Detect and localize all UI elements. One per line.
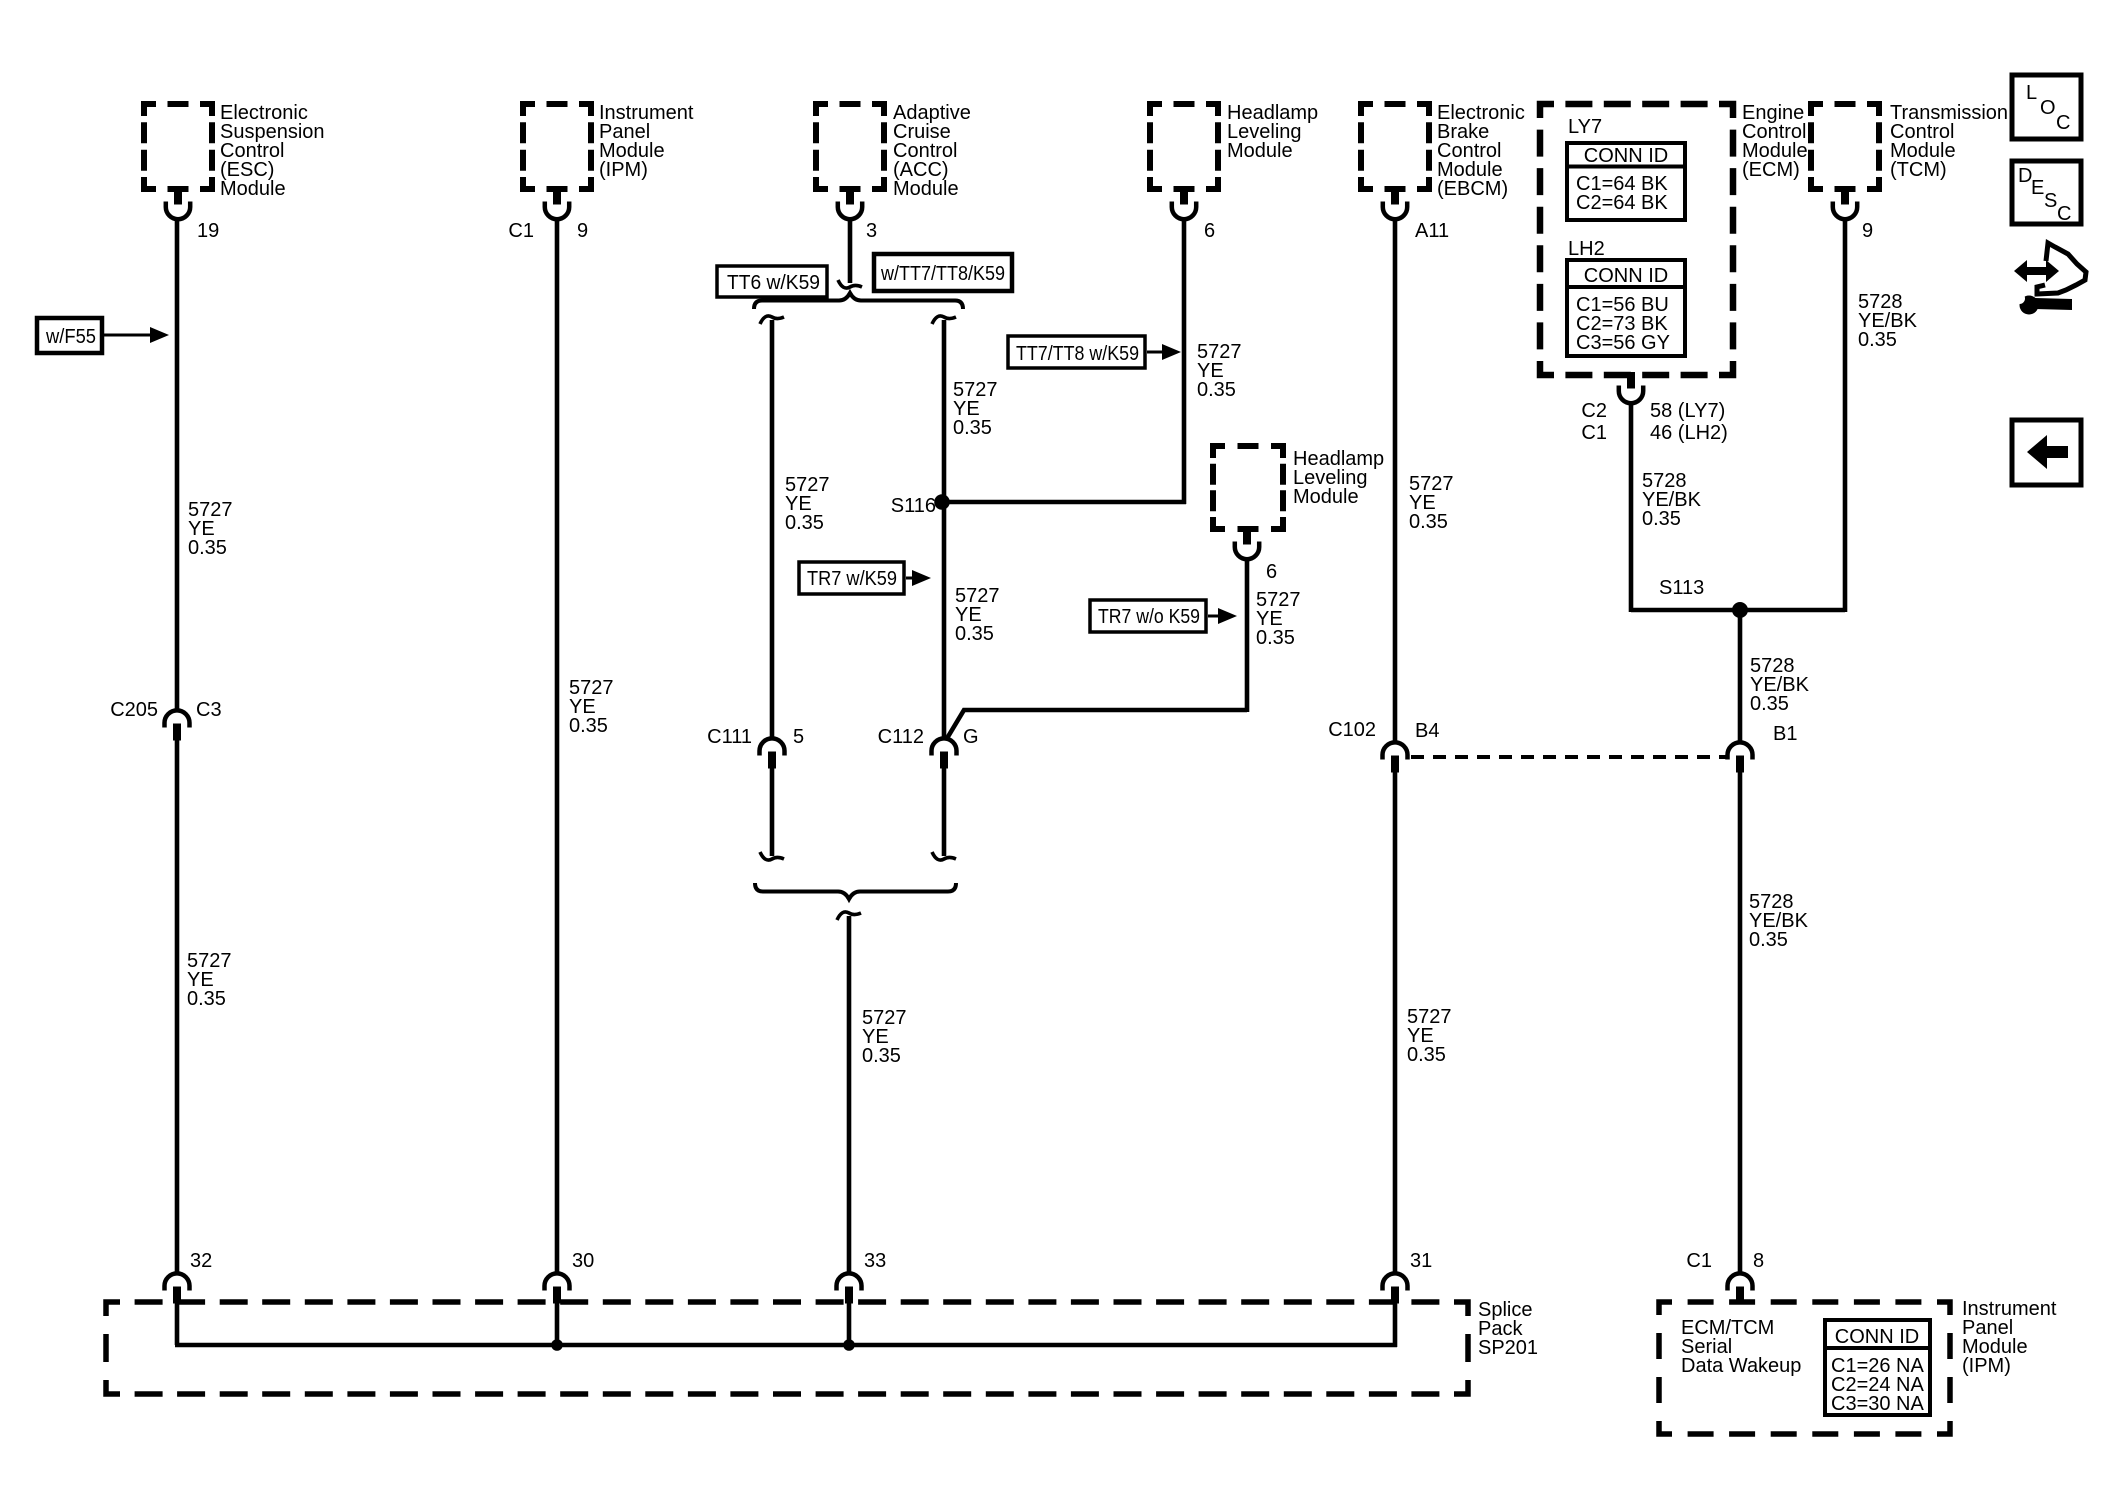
svg-text:0.35: 0.35 — [955, 623, 994, 645]
connector C1 (ECM) — [1581, 422, 1607, 444]
pin label 33 — [864, 1250, 886, 1272]
svg-text:6: 6 — [1266, 561, 1277, 583]
module ACC (Adaptive Cruise Control) box — [816, 104, 884, 189]
CONN ID table (IPM bottom) — [1825, 1320, 1930, 1415]
svg-text:0.35: 0.35 — [569, 715, 608, 737]
module IPM (Instrument Panel Module) label — [599, 102, 694, 181]
svg-text:Data Wakeup: Data Wakeup — [1681, 1355, 1801, 1377]
wire ECM 5728 YE/BK — [1629, 403, 1634, 612]
wire-end hook merged wire top — [837, 912, 861, 920]
svg-text:0.35: 0.35 — [1197, 379, 1236, 401]
option box w/TT7/TT8/K59 — [874, 254, 1012, 291]
wire EBCM into splice pack — [1393, 1303, 1398, 1347]
svg-text:0.35: 0.35 — [1642, 508, 1681, 530]
svg-text:(EBCM): (EBCM) — [1437, 178, 1508, 200]
svg-text:C2=64 BK: C2=64 BK — [1576, 192, 1668, 214]
svg-text:w/TT7/TT8/K59: w/TT7/TT8/K59 — [880, 263, 1005, 285]
module EBCM (Electronic Brake Control) box — [1361, 104, 1429, 189]
module EBCM (Electronic Brake Control) connector symbol — [1383, 188, 1407, 219]
pin 58 (LY7) (ECM) — [1650, 400, 1725, 422]
svg-text:LH2: LH2 — [1568, 238, 1605, 260]
svg-text:3: 3 — [866, 220, 877, 242]
module ACC (Adaptive Cruise Control) connector symbol — [838, 188, 862, 219]
svg-text:B4: B4 — [1415, 720, 1439, 742]
module ESC (Electronic Suspension Control) box — [144, 104, 212, 189]
svg-text:0.35: 0.35 — [1750, 693, 1789, 715]
module Headlamp Leveling (second) label — [1293, 448, 1384, 508]
svg-text:C1: C1 — [1581, 422, 1607, 444]
inline connector pin B1 — [1728, 742, 1753, 772]
connector C1 (IPM) — [508, 220, 534, 242]
wire-end hook right branch bottom — [932, 852, 956, 860]
wire Headlamp Leveling 2 vertical — [1245, 560, 1250, 712]
wire ACC right branch (lower) — [942, 768, 947, 856]
wire Headlamp Leveling 2 horizontal — [946, 710, 1247, 740]
svg-text:0.35: 0.35 — [1749, 929, 1788, 951]
svg-text:TR7 w/K59: TR7 w/K59 — [807, 568, 897, 590]
arrow TR7 w/K59 to right branch — [906, 570, 931, 586]
connector label C102 — [1328, 719, 1376, 741]
wire ACC merged to splice — [847, 916, 852, 1274]
svg-text:(IPM): (IPM) — [599, 159, 648, 181]
svg-text:A11: A11 — [1415, 220, 1449, 242]
splice pack pin 33 connector — [837, 1273, 862, 1303]
Headlamp Leveling (second) connector symbol — [1235, 528, 1259, 559]
module ECM label — [1742, 102, 1808, 181]
harness brace (bottom, above merge) — [755, 883, 956, 899]
svg-text:S113: S113 — [1659, 577, 1704, 599]
pin 9 (IPM) — [577, 220, 588, 242]
module TCM (Transmission Control) label — [1890, 102, 2008, 181]
svg-text:Module: Module — [220, 178, 286, 200]
module IPM (bottom) label — [1962, 1298, 2057, 1377]
svg-text:SP201: SP201 — [1478, 1337, 1538, 1359]
svg-text:(ECM): (ECM) — [1742, 159, 1800, 181]
wire ACC left branch (upper) — [770, 320, 775, 739]
wire TCM 5728 YE/BK — [1843, 218, 1848, 612]
arrow TT7/TT8 w/K59 to headlamp wire — [1147, 344, 1181, 360]
svg-text:S: S — [2044, 190, 2057, 212]
wire EBCM 5727 YE (upper) — [1393, 218, 1398, 743]
wire label 5727 YE 0.35 (Headlamp Leveling 2) — [1256, 589, 1301, 649]
svg-text:0.35: 0.35 — [1256, 627, 1295, 649]
svg-text:9: 9 — [577, 220, 588, 242]
wire label 5727 YE 0.35 (ACC left branch) — [785, 474, 830, 534]
svg-text:33: 33 — [864, 1250, 886, 1272]
svg-text:C205: C205 — [110, 699, 158, 721]
svg-text:C111: C111 — [707, 726, 752, 748]
pin 3 (ACC) — [866, 220, 877, 242]
wire label 5727 YE 0.35 (ACC right branch below S116) — [955, 585, 1000, 645]
module EBCM (Electronic Brake Control) label — [1437, 102, 1525, 200]
arrow w/F55 to ESC wire — [104, 327, 169, 343]
svg-text:TR7 w/o K59: TR7 w/o K59 — [1098, 606, 1200, 628]
svg-text:6: 6 — [1204, 220, 1215, 242]
module IPM (Instrument Panel Module) connector symbol — [545, 188, 569, 219]
svg-text:8: 8 — [1753, 1250, 1764, 1272]
svg-text:C3: C3 — [196, 699, 222, 721]
module Headlamp Leveling (top) box — [1150, 104, 1218, 189]
icon diagnostic (car, double arrow, wrench) — [2014, 243, 2086, 315]
wire-end hook ACC pigtail — [838, 280, 862, 288]
pin A11 (EBCM) — [1415, 220, 1449, 242]
option box TT7/TT8 w/K59 — [1008, 336, 1145, 368]
svg-text:0.35: 0.35 — [187, 988, 226, 1010]
splice pack pin 30 connector — [545, 1273, 570, 1303]
splice pack pin 31 connector — [1383, 1273, 1408, 1303]
inline connector C205/C3 (ESC) — [165, 710, 190, 740]
arrow TR7 w/o K59 to HL2 wire — [1208, 608, 1237, 624]
pin 19 (ESC) — [197, 220, 219, 242]
svg-text:C: C — [2056, 112, 2070, 134]
svg-text:C1: C1 — [508, 220, 534, 242]
svg-text:C112: C112 — [878, 726, 924, 748]
module IPM (bottom, ECM/TCM Serial Data Wakeup) dashed box — [1659, 1302, 1950, 1434]
module TCM (Transmission Control) connector symbol — [1833, 188, 1857, 219]
pin label 8 (IPM bottom) — [1753, 1250, 1764, 1272]
splice S116 junction dot — [934, 494, 950, 510]
wire label 5728 YE/BK 0.35 (ECM) — [1642, 470, 1702, 530]
svg-text:19: 19 — [197, 220, 219, 242]
module ESC (Electronic Suspension Control) label — [220, 102, 325, 200]
svg-text:E: E — [2031, 177, 2044, 199]
pin 6 (Headlamp Leveling) — [1204, 220, 1215, 242]
wire-end hook left branch top — [760, 316, 784, 324]
svg-text:30: 30 — [572, 1250, 594, 1272]
wire B1 to IPM pin 8 — [1738, 772, 1743, 1274]
wire label 5727 YE 0.35 (EBCM upper) — [1409, 473, 1454, 533]
wire label 5728 YE/BK 0.35 (B1 to C1/8) — [1749, 891, 1809, 951]
junction dot IPM wire on bus — [551, 1339, 563, 1351]
ECM connector symbol — [1619, 372, 1643, 403]
wire ESC into splice pack — [175, 1303, 180, 1345]
option box TR7 w/K59 — [799, 562, 904, 594]
module Headlamp Leveling (second, inline) box — [1213, 446, 1283, 529]
svg-text:C102: C102 — [1328, 719, 1376, 741]
wire ACC left branch (lower) — [770, 768, 775, 856]
connector label C112 — [878, 726, 924, 748]
pin 9 (TCM) — [1862, 220, 1873, 242]
pin label 31 — [1410, 1250, 1432, 1272]
wire EBCM 5727 YE (lower) — [1393, 772, 1398, 1274]
module ECM (Engine Control Module) dashed box — [1540, 104, 1733, 375]
node S113 label — [1659, 577, 1704, 599]
svg-text:0.35: 0.35 — [953, 417, 992, 439]
svg-text:LY7: LY7 — [1568, 116, 1602, 138]
wire label 5728 YE/BK 0.35 (TCM) — [1858, 291, 1918, 351]
option box TT6 w/K59 — [717, 266, 827, 297]
connector label C205 — [110, 699, 158, 721]
svg-text:CONN ID: CONN ID — [1584, 265, 1668, 287]
CONN ID table LY7 — [1567, 143, 1685, 220]
wire splice pack bus SP201 — [175, 1343, 1397, 1348]
connector C2 (ECM) — [1581, 400, 1607, 422]
pin 6 (Headlamp Leveling second) — [1266, 561, 1277, 583]
module TCM (Transmission Control) box — [1811, 104, 1879, 189]
svg-text:0.35: 0.35 — [1407, 1044, 1446, 1066]
svg-text:S116: S116 — [891, 495, 936, 517]
connector label C1 (IPM bottom) — [1686, 1250, 1712, 1272]
wire S116 horizontal — [940, 500, 1186, 505]
svg-text:46 (LH2): 46 (LH2) — [1650, 422, 1728, 444]
dashed connector link B4 to B1 — [1411, 755, 1728, 759]
svg-text:0.35: 0.35 — [862, 1045, 901, 1067]
wire IPM 5727 YE — [555, 218, 560, 1274]
splice pack SP201 label — [1478, 1299, 1538, 1359]
node S116 label — [891, 495, 936, 517]
wire ACC merged into splice pack — [847, 1303, 852, 1345]
svg-text:w/F55: w/F55 — [45, 326, 96, 348]
option box TR7 w/o K59 — [1090, 600, 1206, 632]
label LY7 — [1568, 116, 1602, 138]
option box w/F55 — [37, 318, 102, 353]
wire IPM into splice pack — [555, 1303, 560, 1345]
svg-text:B1: B1 — [1773, 723, 1797, 745]
wire Headlamp Leveling vertical — [1182, 218, 1187, 504]
wire-end hook right branch top — [932, 316, 956, 324]
svg-text:C: C — [2057, 203, 2071, 225]
IPM bottom connector C1 pin 8 — [1728, 1273, 1753, 1303]
module Headlamp Leveling (top) connector symbol — [1172, 188, 1196, 219]
wire label 5727 YE 0.35 (Headlamp Leveling) — [1197, 341, 1242, 401]
wire label 5727 YE 0.35 (EBCM lower) — [1407, 1006, 1452, 1066]
label ECM/TCM Serial Data Wakeup — [1681, 1317, 1801, 1377]
wire label 5727 YE 0.35 (IPM) — [569, 677, 614, 737]
wire S113 horizontal — [1631, 608, 1845, 613]
svg-text:0.35: 0.35 — [188, 537, 227, 559]
CONN ID table LH2 — [1567, 260, 1685, 356]
module IPM (Instrument Panel Module) box — [523, 104, 591, 189]
wire label 5727 YE 0.35 (ESC lower) — [187, 950, 232, 1010]
label LH2 — [1568, 238, 1605, 260]
splice pack SP201 dashed box — [106, 1302, 1468, 1394]
connector label C111 — [707, 726, 752, 748]
wire ESC 5727 YE (upper) — [175, 218, 180, 711]
svg-text:(IPM): (IPM) — [1962, 1355, 2011, 1377]
svg-text:9: 9 — [1862, 220, 1873, 242]
svg-text:C2: C2 — [1581, 400, 1607, 422]
svg-text:CONN ID: CONN ID — [1584, 145, 1668, 167]
module Headlamp Leveling (top) label — [1227, 102, 1318, 162]
harness brace (top, under ACC) — [754, 293, 963, 309]
svg-text:Module: Module — [1227, 140, 1293, 162]
svg-text:CONN ID: CONN ID — [1835, 1326, 1919, 1348]
svg-text:Module: Module — [1293, 486, 1359, 508]
connector label C3 — [196, 699, 222, 721]
splice S113 junction dot — [1732, 602, 1748, 618]
svg-text:(TCM): (TCM) — [1890, 159, 1947, 181]
svg-text:TT6 w/K59: TT6 w/K59 — [727, 272, 820, 294]
svg-text:G: G — [963, 726, 979, 748]
pin label 5 (C111) — [793, 726, 804, 748]
wire label 5727 YE 0.35 (ACC right branch above S116) — [953, 379, 998, 439]
wire S113 to B1 — [1738, 610, 1743, 743]
wire label 5727 YE 0.35 (ESC upper) — [188, 499, 233, 559]
icon DESC box — [2012, 161, 2081, 225]
inline connector C102 pin B4 (EBCM) — [1383, 742, 1408, 772]
module ESC (Electronic Suspension Control) connector symbol — [166, 188, 190, 219]
wire ESC 5727 YE (lower) — [175, 740, 180, 1274]
pin label 32 — [190, 1250, 212, 1272]
splice pack pin 32 connector — [165, 1273, 190, 1303]
wire ACC pigtail — [848, 218, 853, 283]
wire label 5728 YE/BK 0.35 (S113 drop) — [1750, 655, 1810, 715]
svg-text:O: O — [2040, 97, 2056, 119]
svg-text:0.35: 0.35 — [785, 512, 824, 534]
svg-text:58 (LY7): 58 (LY7) — [1650, 400, 1725, 422]
pin label 30 — [572, 1250, 594, 1272]
svg-text:L: L — [2026, 82, 2037, 104]
pin label G (C112) — [963, 726, 979, 748]
module ACC (Adaptive Cruise Control) label — [893, 102, 971, 200]
wire ACC right branch (upper) — [942, 320, 947, 739]
svg-text:Module: Module — [893, 178, 959, 200]
junction dot ACC wire on bus — [843, 1339, 855, 1351]
svg-text:0.35: 0.35 — [1409, 511, 1448, 533]
svg-text:32: 32 — [190, 1250, 212, 1272]
icon back-arrow box — [2012, 420, 2081, 485]
inline connector C112 pin G — [932, 738, 957, 768]
pin label B1 — [1773, 723, 1797, 745]
svg-text:5: 5 — [793, 726, 804, 748]
svg-text:C3=56 GY: C3=56 GY — [1576, 332, 1670, 354]
wire label 5727 YE 0.35 (ACC merged) — [862, 1007, 907, 1067]
svg-text:0.35: 0.35 — [1858, 329, 1897, 351]
svg-text:C1: C1 — [1686, 1250, 1712, 1272]
wire-end hook left branch bottom — [760, 852, 784, 860]
svg-text:C3=30 NA: C3=30 NA — [1831, 1393, 1924, 1415]
inline connector C111 pin 5 — [760, 738, 785, 768]
icon LOC box — [2012, 75, 2081, 139]
pin label B4 (C102) — [1415, 720, 1439, 742]
pin 46 (LH2) (ECM) — [1650, 422, 1728, 444]
svg-text:31: 31 — [1410, 1250, 1432, 1272]
svg-text:TT7/TT8 w/K59: TT7/TT8 w/K59 — [1016, 343, 1139, 365]
